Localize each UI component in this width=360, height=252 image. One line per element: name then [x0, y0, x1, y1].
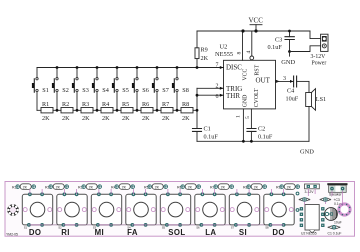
switch S4	[92, 68, 109, 111]
pin 8 VCC	[237, 31, 249, 81]
svg-text:2K: 2K	[122, 115, 130, 122]
svg-text:MI: MI	[95, 228, 104, 237]
junction node bus/S5	[116, 66, 119, 69]
PCB resistor footprint R4	[111, 184, 135, 190]
svg-text:VCC: VCC	[249, 17, 264, 25]
svg-text:SI: SI	[239, 228, 247, 237]
svg-text:S1: S1	[42, 87, 49, 94]
pin 6 THR	[197, 92, 240, 100]
svg-text:C1 0.1uF: C1 0.1uF	[328, 232, 342, 236]
pin 4 RST (with bubble)	[246, 31, 261, 76]
op-amp / timer IC U2 NE555	[215, 44, 276, 109]
PCB connector Speaker footprint	[327, 183, 347, 196]
svg-text:3-12V: 3-12V	[311, 54, 327, 60]
svg-text:3: 3	[283, 76, 286, 82]
junction node bus/S2	[56, 66, 59, 69]
svg-text:2K: 2K	[89, 186, 94, 190]
wire: VCC rail	[197, 30, 310, 32]
switch S5	[112, 68, 129, 111]
junction node bus/S7	[156, 66, 159, 69]
switch S7	[152, 68, 169, 111]
PCB key switch S8 (DO)	[264, 189, 294, 229]
svg-text:C4: C4	[287, 87, 294, 94]
PCB board outline	[5, 182, 355, 237]
junction node S6/R5/R6	[136, 109, 139, 112]
PCB resistor footprint R6	[177, 184, 201, 190]
switch S3	[72, 68, 89, 111]
switch S1	[32, 68, 49, 111]
svg-text:2K: 2K	[62, 115, 70, 122]
PCB mounting hole (magenta ring)	[339, 204, 351, 216]
PCB capacitor C4 footprint (electrolytic)	[325, 208, 342, 225]
pin 2 TRIG	[197, 83, 242, 93]
svg-text:GND: GND	[281, 59, 295, 66]
svg-text:C2: C2	[258, 125, 265, 132]
PCB key switch S6 (LA)	[195, 189, 236, 229]
wire: power return to C3 node	[290, 46, 321, 52]
svg-text:Power: Power	[312, 61, 327, 67]
svg-text:2K: 2K	[254, 186, 259, 190]
PCB key switch S7 (SI)	[229, 189, 270, 229]
svg-text:U2 NE555: U2 NE555	[301, 232, 317, 236]
svg-text:0.1uF: 0.1uF	[258, 134, 273, 141]
svg-text:GND: GND	[242, 95, 248, 108]
svg-text:0.1uF: 0.1uF	[204, 134, 219, 141]
PCB trace segments (right section)	[305, 189, 343, 207]
pin 1 GND	[235, 95, 248, 142]
PCB capacitor footprint C2	[299, 198, 311, 202]
svg-text:U2: U2	[220, 44, 228, 51]
svg-text:S6: S6	[142, 87, 149, 94]
svg-text:S7: S7	[231, 225, 235, 229]
PCB IC U2 NE555 footprint	[300, 205, 325, 236]
svg-text:7: 7	[216, 63, 219, 69]
svg-text:2K: 2K	[155, 186, 160, 190]
svg-text:R4: R4	[102, 101, 109, 108]
pin 3 OUT	[256, 76, 294, 85]
PCB resistor footprint R1	[12, 184, 36, 190]
svg-text:YM2-05: YM2-05	[6, 232, 18, 236]
svg-text:RST: RST	[255, 64, 261, 75]
svg-text:2K: 2K	[142, 115, 150, 122]
svg-text:1: 1	[235, 115, 241, 118]
svg-text:C1: C1	[204, 125, 211, 132]
svg-text:THR: THR	[226, 92, 240, 100]
svg-text:R5: R5	[122, 101, 129, 108]
junction node chain end	[196, 109, 199, 112]
capacitor C1 0.1uF	[193, 125, 219, 141]
PCB capacitor footprint C1	[328, 226, 342, 236]
PCB key switch S5 (SOL)	[160, 189, 201, 229]
junction node bus/S8	[176, 66, 179, 69]
svg-text:S5: S5	[162, 225, 166, 229]
svg-text:2K: 2K	[221, 186, 226, 190]
wire: top bus (switch commons to DISC pin 7)	[37, 67, 224, 69]
svg-text:LS1: LS1	[316, 96, 326, 103]
svg-text:S2: S2	[62, 87, 69, 94]
svg-text:6: 6	[216, 94, 219, 100]
junction node bus/S6	[136, 66, 139, 69]
svg-text:R2: R2	[62, 101, 69, 108]
switch S8	[172, 68, 189, 111]
svg-text:VCC: VCC	[243, 68, 249, 80]
svg-text:4: 4	[246, 51, 252, 54]
capacitor C4 10uF	[286, 76, 310, 103]
svg-text:S1: S1	[24, 225, 28, 229]
svg-text:10uF: 10uF	[334, 220, 342, 224]
svg-text:2: 2	[216, 83, 219, 89]
PCB resistor footprint R5	[144, 184, 168, 190]
svg-text:2K: 2K	[182, 115, 190, 122]
svg-text:2K: 2K	[42, 115, 50, 122]
junction node S5/R4/R5	[116, 109, 119, 112]
svg-text:5: 5	[245, 116, 251, 119]
PCB resistor footprint R7	[210, 184, 234, 190]
junction node VCC stub/rail	[254, 29, 257, 32]
svg-text:2K: 2K	[56, 186, 61, 190]
svg-text:C3: C3	[275, 37, 282, 44]
switch S2	[52, 68, 69, 111]
svg-text:2K: 2K	[201, 55, 209, 62]
resistor R4 2K	[101, 101, 113, 122]
resistor R2 2K	[61, 101, 73, 122]
connector J1 3-12V Power	[311, 34, 329, 66]
PCB key switch S3 (MI)	[91, 189, 132, 229]
ground symbol (near C3)	[281, 52, 295, 67]
junction node C3 bottom	[288, 50, 291, 53]
svg-text:DO: DO	[272, 228, 285, 237]
svg-text:S6: S6	[196, 225, 200, 229]
PCB resistor footprint R8	[243, 184, 267, 190]
svg-text:FA: FA	[127, 228, 138, 237]
svg-text:S3: S3	[82, 87, 89, 94]
PCB key switch S4 (FA)	[126, 189, 167, 229]
resistor R1 2K	[41, 101, 53, 122]
resistor R7 2K	[161, 101, 173, 122]
svg-text:3-12V: 3-12V	[305, 190, 315, 194]
svg-text:10uF: 10uF	[286, 96, 299, 103]
svg-text:CVOLT: CVOLT	[254, 88, 260, 107]
wire: ground rail	[197, 140, 309, 142]
PCB resistor footprint R9	[276, 184, 300, 190]
svg-text:Speaker: Speaker	[329, 193, 342, 197]
resistor R6 2K	[141, 101, 153, 122]
svg-text:OUT: OUT	[256, 77, 271, 85]
junction node S7/R6/R7	[156, 109, 159, 112]
svg-text:8: 8	[237, 52, 243, 55]
svg-text:S8: S8	[182, 87, 189, 94]
PCB speaker hole footprint	[7, 204, 19, 216]
svg-text:S8: S8	[265, 225, 269, 229]
junction node R9/bus	[196, 66, 199, 69]
power symbol VCC	[249, 17, 264, 32]
PCB key switch S2 (RI)	[57, 189, 98, 229]
PCB capacitor footprint C3	[320, 198, 341, 206]
svg-text:S5: S5	[122, 87, 129, 94]
pin 5 CVOLT	[245, 88, 260, 129]
svg-text:2K: 2K	[122, 186, 127, 190]
svg-text:NE555: NE555	[215, 51, 233, 58]
svg-text:0.1uF: 0.1uF	[268, 44, 283, 51]
svg-text:2K: 2K	[102, 115, 110, 122]
junction node S8/R7/R8	[176, 109, 179, 112]
resistor R3 2K	[81, 101, 93, 122]
capacitor C2 0.1uF	[247, 125, 273, 141]
PCB resistor footprint R2	[45, 184, 68, 190]
svg-text:2K: 2K	[162, 115, 170, 122]
svg-text:R3: R3	[82, 101, 89, 108]
svg-text:R9: R9	[201, 47, 208, 54]
svg-text:2K: 2K	[82, 115, 90, 122]
svg-text:2K: 2K	[287, 186, 292, 190]
svg-text:R1: R1	[42, 101, 49, 108]
svg-text:DO: DO	[29, 228, 42, 237]
wire: rail to power connector	[310, 31, 321, 39]
junction node S2/R1/R2	[56, 109, 59, 112]
svg-text:S4: S4	[102, 87, 109, 94]
svg-text:RI: RI	[61, 228, 70, 237]
junction node bus/S4	[96, 66, 99, 69]
junction node THR	[196, 94, 199, 97]
junction node GND pin/rail	[242, 140, 245, 143]
svg-text:LA: LA	[205, 228, 216, 237]
svg-text:2K: 2K	[188, 186, 193, 190]
svg-text:SOL: SOL	[168, 228, 185, 237]
junction node C2/rail	[250, 140, 253, 143]
PCB resistor footprint R3	[78, 184, 101, 190]
pin 7 DISC	[216, 63, 243, 72]
wire: resistor series chain	[37, 109, 197, 111]
junction node S3/R2/R3	[76, 109, 79, 112]
resistor R8 2K	[181, 101, 193, 122]
svg-text:DISC: DISC	[226, 64, 242, 72]
svg-text:R7: R7	[162, 101, 169, 108]
junction node bus/S3	[76, 66, 79, 69]
svg-text:2K: 2K	[23, 186, 28, 190]
speaker LS1	[306, 81, 326, 141]
svg-text:GND: GND	[300, 149, 314, 156]
resistor R9 2K	[195, 31, 209, 67]
switch S6	[132, 68, 149, 111]
junction node S4/R3/R4	[96, 109, 99, 112]
PCB key switch S1 (DO)	[22, 189, 63, 229]
svg-text:R8: R8	[182, 101, 189, 108]
svg-text:S7: S7	[162, 87, 169, 94]
PCB connector 3-12V footprint	[305, 184, 320, 194]
resistor R5 2K	[121, 101, 133, 122]
wire: node TRIG/THR/chain/C1 vertical	[196, 88, 198, 128]
PCB via	[296, 192, 299, 195]
svg-text:R6: R6	[142, 101, 149, 108]
capacitor C3 0.1uF	[268, 31, 295, 52]
